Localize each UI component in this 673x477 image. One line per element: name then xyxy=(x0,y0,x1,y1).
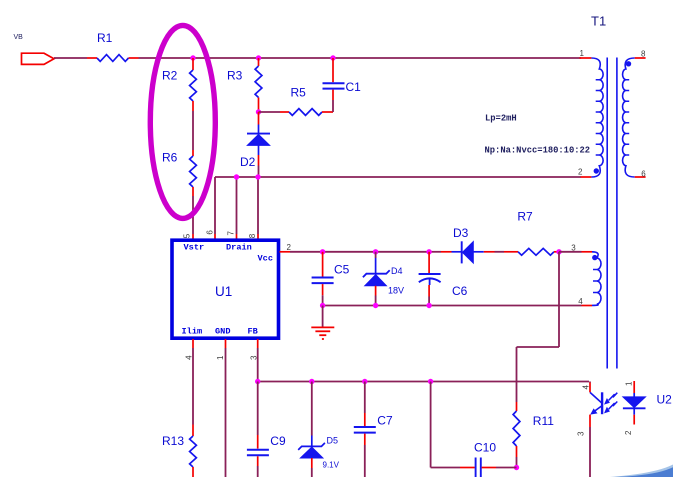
wire C10 lead right xyxy=(482,467,496,469)
node R11 C10 xyxy=(514,465,519,470)
pin stub U2 pin2 xyxy=(633,415,635,425)
svg-text:C7: C7 xyxy=(377,414,393,428)
wire C7 lead bottom xyxy=(364,434,366,445)
wire R13 lead bottom xyxy=(192,467,194,477)
wire C1 lead top xyxy=(332,58,334,82)
pin stub U1 pin2 xyxy=(280,251,291,253)
svg-text:C1: C1 xyxy=(346,80,362,94)
wire C7 tail xyxy=(364,445,366,477)
winding T1 primary xyxy=(591,58,603,177)
op-amp U1 xyxy=(172,240,279,338)
wire C7 lead top xyxy=(364,413,366,426)
svg-text:T1: T1 xyxy=(591,13,606,28)
node fb D5 xyxy=(309,379,314,384)
zener D5 xyxy=(298,436,339,470)
wire pin7 drop xyxy=(236,177,238,234)
node vcc C5 xyxy=(320,249,325,254)
wire fb rail xyxy=(258,381,589,383)
node R3 top xyxy=(256,55,261,60)
wire D2 lead top xyxy=(258,112,260,125)
wire R11 to C10 rail xyxy=(516,457,518,468)
wire C9 lead bottom xyxy=(257,456,259,466)
resistor R3 xyxy=(227,66,262,98)
node fb C10 xyxy=(428,379,433,384)
svg-text:R3: R3 xyxy=(227,69,243,83)
wire aux bottom rail xyxy=(323,305,582,307)
node drain pin8 xyxy=(255,174,260,179)
wire C9 tail xyxy=(257,466,259,477)
wire to T1 pin3 xyxy=(559,251,582,253)
wire C9 lead top xyxy=(257,435,259,449)
resistor R1 xyxy=(97,31,129,61)
resistor R11 xyxy=(513,411,554,446)
wire drain rail xyxy=(215,176,581,178)
wire R11 lead bottom xyxy=(516,446,518,457)
svg-text:2: 2 xyxy=(287,243,292,252)
svg-text:1: 1 xyxy=(624,381,633,386)
svg-text:3: 3 xyxy=(577,431,586,436)
diode D3 xyxy=(452,226,484,263)
wire D4 tail xyxy=(375,296,377,306)
svg-text:R6: R6 xyxy=(162,150,178,164)
resistor R6 xyxy=(162,150,196,187)
wire ground lead xyxy=(322,306,324,328)
svg-text:6: 6 xyxy=(206,230,215,235)
led U2 diode xyxy=(623,392,672,414)
svg-text:D5: D5 xyxy=(327,436,339,446)
wire GND down xyxy=(225,348,227,477)
svg-text:2: 2 xyxy=(578,168,583,177)
svg-text:1: 1 xyxy=(580,49,585,58)
wire R5 left xyxy=(259,111,281,113)
wire C10 lead left xyxy=(460,467,475,469)
wire C10 rail right xyxy=(496,467,517,469)
pin stub U1 pin8 xyxy=(257,234,259,240)
capacitor C7 xyxy=(354,414,393,433)
wire aux node down xyxy=(558,252,560,347)
wire R2 to R6 xyxy=(192,111,194,150)
resistor R13 xyxy=(162,434,196,467)
capacitor C6 xyxy=(419,274,468,298)
pin stub U1 pin3b xyxy=(257,339,259,348)
wire R7 lead right xyxy=(554,251,560,253)
wire Ilim down xyxy=(192,348,194,425)
svg-text:R13: R13 xyxy=(162,434,184,448)
svg-text:U1: U1 xyxy=(215,284,232,299)
wire R3 lead bottom xyxy=(258,98,260,113)
wire D4 lead bottom xyxy=(375,286,377,296)
svg-text:Drain: Drain xyxy=(226,243,252,253)
node R3 bottom xyxy=(256,109,261,114)
svg-text:8: 8 xyxy=(248,233,257,238)
svg-text:Ilim: Ilim xyxy=(182,327,203,337)
phase dot primary xyxy=(594,168,599,173)
capacitor C9 xyxy=(247,434,286,455)
node gnd D4 xyxy=(373,303,378,308)
wire U2 pin3 down xyxy=(589,427,591,477)
svg-text:U2: U2 xyxy=(657,392,673,406)
phase dot aux xyxy=(592,255,597,260)
diode D2 xyxy=(240,125,270,170)
wire C10 rail left xyxy=(431,467,460,469)
wire R7 lead left xyxy=(504,251,518,253)
svg-text:Lp=2mH: Lp=2mH xyxy=(485,114,517,124)
wire C5 to rail xyxy=(322,295,324,305)
svg-text:6: 6 xyxy=(641,169,646,178)
svg-text:Vstr: Vstr xyxy=(184,243,205,253)
wire R2 lead bottom xyxy=(192,101,194,111)
wire C6 tail xyxy=(428,297,430,306)
wire R11 lead top xyxy=(516,402,518,411)
svg-text:C5: C5 xyxy=(334,263,350,277)
wire pin8 drop xyxy=(257,177,259,234)
wire R13 lead top xyxy=(192,425,194,437)
pin stub U2 pin1 xyxy=(633,381,635,393)
svg-text:Vcc: Vcc xyxy=(258,254,273,264)
wire R6 to U1 pin5 xyxy=(192,196,194,234)
wire C9 drop xyxy=(257,382,259,436)
wire step down xyxy=(516,347,518,402)
wire R5 lead left xyxy=(280,111,289,113)
pin stub U2 pin3 xyxy=(589,415,591,427)
node C1 top xyxy=(330,55,335,60)
wire D5 drop xyxy=(311,382,313,436)
svg-text:1: 1 xyxy=(216,355,225,360)
wire D4 lead top xyxy=(375,252,377,258)
wire C5 lead top xyxy=(322,252,324,277)
zener D4 xyxy=(363,258,404,296)
capacitor C1 xyxy=(323,80,362,94)
wire D3 lead left xyxy=(441,251,452,253)
node gnd C6 xyxy=(426,303,431,308)
svg-text:R11: R11 xyxy=(533,414,554,428)
node gnd C5 xyxy=(320,303,325,308)
wire drain rail corner xyxy=(214,177,216,234)
svg-text:18V: 18V xyxy=(388,286,404,296)
wire R1 lead left xyxy=(87,57,97,59)
pin stub U1 pin6 xyxy=(214,234,216,240)
wire C7 drop xyxy=(364,382,366,414)
resistor R7 xyxy=(517,209,554,255)
wire vcc rail c xyxy=(376,251,430,253)
svg-text:D2: D2 xyxy=(240,155,256,169)
annotation ellipse xyxy=(150,25,215,218)
svg-text:R7: R7 xyxy=(517,209,533,223)
wire C6 lead top xyxy=(428,252,430,273)
wire T1 pin8 stub xyxy=(635,57,646,59)
wire R6 lead top xyxy=(192,150,194,156)
wire D5 lead bottom xyxy=(311,458,313,468)
wire R1 lead right xyxy=(129,57,139,59)
wire T1 pin1 stub xyxy=(580,57,592,59)
resistor R5 xyxy=(289,86,322,116)
node fb C9 xyxy=(255,379,260,384)
wire R6 lead bottom xyxy=(192,187,194,196)
svg-text:C9: C9 xyxy=(270,434,286,448)
wire D2 lead bottom xyxy=(258,155,260,166)
resistor R2 xyxy=(162,69,196,102)
wire C6 lead bottom xyxy=(428,285,430,297)
wire D2 to drain rail xyxy=(258,166,260,178)
svg-text:FB: FB xyxy=(248,327,258,337)
node drain pin7 xyxy=(234,174,239,179)
capacitor C5 xyxy=(312,263,350,283)
pin stub U1 pin5 xyxy=(192,234,194,240)
winding T1 secondary xyxy=(623,58,635,177)
svg-text:8: 8 xyxy=(641,50,646,59)
svg-text:R5: R5 xyxy=(291,86,307,100)
wire port to R1 xyxy=(54,57,87,59)
wire T1 pin4 stub xyxy=(582,305,593,307)
svg-text:GND: GND xyxy=(215,327,230,337)
wire FB down xyxy=(257,348,259,382)
wire fb corner down xyxy=(589,382,591,383)
wire C1 to R5 xyxy=(332,100,334,112)
wire step left xyxy=(517,346,560,348)
wire R2 lead top xyxy=(192,58,194,70)
node vcc aux xyxy=(556,249,561,254)
node vcc C6 xyxy=(426,249,431,254)
port VB xyxy=(22,53,55,64)
transformer T1 core xyxy=(607,58,617,369)
svg-text:4: 4 xyxy=(581,385,590,390)
node fb C7 xyxy=(362,379,367,384)
wire D5 tail xyxy=(311,468,313,477)
svg-text:VB: VB xyxy=(14,34,24,41)
wire D3 lead right xyxy=(484,251,495,253)
wire D3 to R7 xyxy=(495,251,505,253)
pin stub U1 pin7 xyxy=(236,234,238,240)
phase dot secondary xyxy=(626,61,631,66)
transistor U2 phototransistor xyxy=(590,392,617,414)
wire vcc rail a xyxy=(290,251,323,253)
wire vcc rail b xyxy=(323,251,376,253)
wire vcc rail d xyxy=(429,251,441,253)
svg-text:C6: C6 xyxy=(452,284,468,298)
svg-text:7: 7 xyxy=(226,231,235,236)
svg-text:5: 5 xyxy=(182,233,191,238)
node R2 top xyxy=(190,55,195,60)
svg-text:2: 2 xyxy=(624,430,633,435)
wire T1 pin2 stub xyxy=(581,176,592,178)
wire R5 lead right xyxy=(322,111,333,113)
wire T1 pin6 stub xyxy=(635,176,646,178)
svg-text:C10: C10 xyxy=(474,440,496,454)
pin stub U1 pin1b xyxy=(225,339,227,348)
svg-text:R1: R1 xyxy=(97,31,113,45)
pin stub U2 pin4 xyxy=(589,383,591,393)
wire R3 lead top xyxy=(258,58,260,66)
wire T1 pin3 stub xyxy=(582,251,593,253)
svg-text:D4: D4 xyxy=(391,266,403,276)
svg-text:D3: D3 xyxy=(453,226,469,240)
pin stub U1 pin4b xyxy=(192,339,194,348)
capacitor C10 xyxy=(474,440,496,477)
svg-text:4: 4 xyxy=(578,297,583,306)
wire C5 lead bottom xyxy=(322,284,324,295)
svg-text:3: 3 xyxy=(571,244,576,253)
node vcc D4 xyxy=(373,249,378,254)
svg-text:9.1V: 9.1V xyxy=(323,461,340,470)
svg-text:R2: R2 xyxy=(162,69,178,83)
ground xyxy=(311,327,334,339)
winding T1 aux xyxy=(592,252,601,306)
wire C1 lead bottom xyxy=(332,90,334,100)
wire top rail xyxy=(139,57,582,59)
svg-text:Np:Na:Nvcc=180:10:22: Np:Na:Nvcc=180:10:22 xyxy=(485,146,591,156)
wire C10 drop xyxy=(430,382,432,468)
